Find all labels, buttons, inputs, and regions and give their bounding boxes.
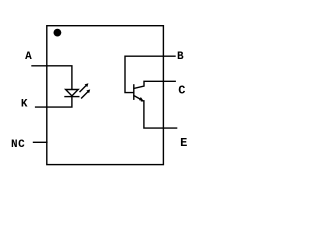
wire pin A lead: [32, 66, 72, 90]
svg-text:C: C: [178, 84, 185, 98]
pin 1 dot: [54, 29, 62, 37]
LED light arrow 1: [80, 85, 87, 92]
arrow 2 head: [86, 89, 90, 93]
package outline U1: [47, 26, 164, 165]
svg-text:E: E: [180, 136, 187, 150]
LED D1 triangle: [66, 90, 79, 96]
emitter arrowhead: [139, 97, 143, 101]
wire pin B lead: [125, 56, 175, 92]
svg-text:B: B: [177, 51, 184, 63]
transistor Q1 base bar: [133, 85, 135, 99]
wire pin E lead: [142, 101, 177, 128]
svg-text:A: A: [25, 51, 32, 63]
wire pin K lead: [36, 97, 72, 108]
transistor Q1 collector + wire pin C lead: [134, 81, 175, 88]
svg-text:NC: NC: [11, 139, 25, 151]
wire pin NC stub: [34, 141, 47, 143]
arrow 1 head: [85, 83, 89, 87]
svg-text:K: K: [21, 98, 28, 110]
transistor Q1 emitter: [134, 96, 141, 100]
LED D1 cathode bar: [65, 96, 79, 98]
LED light arrow 2: [82, 91, 89, 98]
